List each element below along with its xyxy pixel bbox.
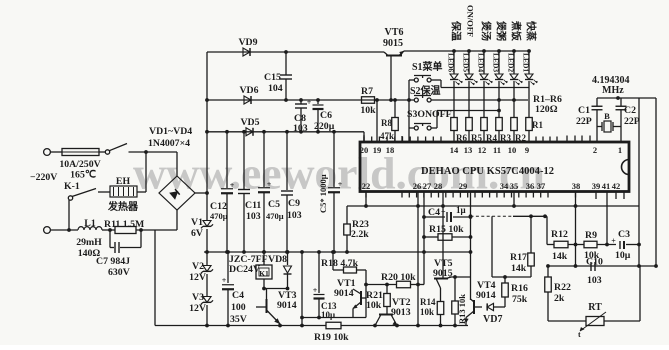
svg-text:35: 35 [510, 181, 519, 191]
svg-text:22P: 22P [576, 116, 592, 127]
svg-text:+: + [307, 98, 312, 107]
wire right edge drop [655, 98, 657, 266]
svg-text:R9: R9 [585, 230, 597, 241]
wire top row [207, 51, 384, 53]
wire pin27 bus [423, 192, 425, 285]
resistor R16 75k [504, 277, 506, 283]
svg-text:LED3: LED3 [492, 53, 501, 72]
svg-text:C1: C1 [578, 105, 590, 116]
resistor R20 10k [397, 281, 411, 288]
wire pin26 bus [417, 192, 419, 326]
svg-text:VD1~VD4: VD1~VD4 [149, 126, 192, 137]
relay contact K-1 [68, 196, 72, 200]
svg-text:9014: 9014 [476, 290, 496, 301]
svg-text:R22: R22 [554, 282, 571, 293]
switch S2 keep-warm [414, 98, 418, 102]
svg-text:12V: 12V [189, 303, 206, 314]
svg-text:LED4: LED4 [477, 53, 486, 72]
thermistor RT [586, 317, 604, 326]
svg-text:LED1: LED1 [522, 53, 531, 72]
capacitor C5* 1000u [333, 132, 335, 187]
svg-text:+: + [313, 286, 318, 295]
diode VD6 [244, 96, 251, 104]
resistor R15 10k [424, 236, 438, 238]
wire pin41 column [606, 192, 608, 245]
svg-text:10k: 10k [366, 300, 382, 311]
node rail right end [422, 250, 426, 254]
svg-text:29: 29 [459, 181, 468, 191]
pin stub extra [401, 136, 403, 142]
svg-text:27: 27 [423, 181, 432, 191]
svg-text:34: 34 [500, 181, 509, 191]
svg-text:22P: 22P [624, 116, 640, 127]
svg-text:C6: C6 [320, 110, 332, 121]
svg-text:104: 104 [268, 83, 283, 94]
svg-text:发热器: 发热器 [107, 200, 139, 213]
svg-text:R20 10k: R20 10k [381, 272, 416, 283]
svg-text:K-1: K-1 [64, 181, 80, 192]
svg-text:+: + [230, 181, 235, 190]
pin stub 39 [595, 192, 597, 199]
svg-text:6V: 6V [191, 228, 203, 239]
resistor R14 10k [437, 302, 444, 315]
wire S3 row [431, 127, 437, 129]
transistor VT6 9015 [384, 52, 388, 56]
svg-text:103: 103 [293, 123, 308, 134]
wire dashed-drop [491, 216, 493, 277]
svg-text:EH: EH [116, 176, 131, 187]
svg-text:75k: 75k [512, 294, 528, 305]
svg-text:煮饭: 煮饭 [510, 20, 523, 41]
svg-text:V2: V2 [192, 261, 204, 272]
svg-text:2.2k: 2.2k [351, 229, 369, 240]
switch S1 menu [414, 78, 418, 82]
wire [136, 229, 177, 231]
svg-text:−220V: −220V [30, 172, 57, 183]
svg-text:29mH: 29mH [76, 237, 102, 248]
wire R7 to pin19 [376, 100, 378, 142]
capacitor C13 10u [318, 252, 320, 293]
wire [102, 229, 115, 231]
capacitor C4 100/35V [227, 252, 229, 283]
svg-text:LED5: LED5 [462, 53, 471, 72]
svg-text:快蒸: 快蒸 [525, 20, 538, 41]
svg-text:14: 14 [450, 145, 459, 155]
wire pin29 bus [470, 192, 472, 300]
resistor R11 1.5M [115, 227, 136, 234]
svg-text:煲汤: 煲汤 [480, 21, 493, 41]
wire pins36-37 row [513, 215, 547, 217]
resistor R4 120 [481, 118, 488, 131]
svg-text:12V: 12V [189, 272, 206, 283]
svg-text:C15: C15 [264, 72, 281, 83]
LED5 column ONOFF [467, 49, 471, 53]
svg-text:20: 20 [360, 145, 369, 155]
capacitor C7 984J 630V [109, 230, 111, 248]
svg-text:9015: 9015 [383, 38, 403, 49]
capacitor C15 104 [285, 52, 287, 75]
zener V2 12V [203, 266, 211, 272]
transistor VT5 9015 [434, 278, 448, 280]
LED anode bus from VT6 [404, 50, 529, 52]
relay coil K1 JZC-7FF DC24V [263, 252, 265, 265]
pin stubs top unlabeled [566, 136, 568, 143]
pin stub 42 [623, 192, 625, 199]
wire to bridge top [146, 151, 177, 153]
pin stub 20 [363, 135, 365, 142]
bottom ground rail [155, 325, 326, 327]
pin stub 1 [620, 135, 622, 142]
svg-text:10μ: 10μ [321, 310, 335, 320]
resistor R5 120 [466, 118, 473, 131]
resistor R23 2.2k [346, 206, 348, 224]
resistor R21 10k [384, 294, 391, 307]
inductor L1 29mH 140ohm [78, 227, 102, 230]
svg-text:R14: R14 [420, 297, 436, 307]
svg-text:9013: 9013 [391, 307, 411, 318]
capacitor C4 1u reset [424, 216, 445, 218]
svg-text:VD7: VD7 [483, 314, 502, 325]
svg-text:103: 103 [246, 211, 261, 222]
wire VT1 emitter row [302, 317, 366, 319]
R17 14k [530, 216, 532, 253]
svg-text:470μ: 470μ [266, 211, 284, 221]
capacitor C11 103 [243, 132, 245, 189]
svg-text:35V: 35V [230, 314, 247, 325]
LED6 column &#20445;&#28201; [452, 49, 456, 53]
pin stub 42b [615, 192, 617, 199]
bottom rail right part [341, 325, 468, 327]
node [108, 228, 112, 232]
svg-text:C3: C3 [618, 229, 630, 240]
svg-text:1μ: 1μ [456, 205, 466, 215]
RT loop top [548, 265, 656, 267]
svg-text:MHz: MHz [602, 85, 624, 96]
svg-text:ON/OFF: ON/OFF [466, 5, 476, 37]
svg-text:保温: 保温 [450, 20, 463, 41]
resistor R1 120 [526, 118, 533, 131]
svg-text:100: 100 [231, 302, 246, 313]
svg-text:煲粥: 煲粥 [495, 21, 508, 41]
capacitor C5 470u [263, 132, 265, 187]
svg-text:R7: R7 [361, 86, 373, 97]
wire pin38 column [575, 192, 577, 266]
diode VD7 [474, 306, 482, 308]
svg-text:103: 103 [587, 275, 602, 286]
svg-text:28: 28 [434, 181, 443, 191]
svg-text:+: + [338, 180, 343, 189]
node [316, 130, 320, 134]
crystal bus top [597, 97, 656, 99]
diode VD8 flyback [287, 252, 289, 265]
crystal B 4.194304MHz [604, 121, 611, 132]
node [205, 98, 209, 102]
svg-text:C9: C9 [288, 198, 300, 209]
svg-text:1: 1 [618, 145, 622, 155]
resistor R8 47k [394, 100, 396, 118]
capacitor C8 103 [300, 100, 302, 104]
svg-text:R17: R17 [510, 252, 527, 263]
resistor R13 10k [452, 301, 459, 314]
svg-text:10k: 10k [420, 307, 434, 317]
wire pin22 [365, 192, 367, 206]
svg-text:103: 103 [287, 210, 302, 221]
wire ground drop x302 [301, 252, 303, 326]
svg-text:470μ: 470μ [210, 211, 228, 221]
RT loop bottom [548, 320, 586, 322]
wire row y206 left [347, 205, 443, 207]
svg-text:LED2: LED2 [507, 53, 516, 72]
pin stub 38b [575, 192, 577, 198]
svg-text:10: 10 [508, 145, 517, 155]
resistor R18 4.7k [332, 252, 334, 270]
capacitor C2 22P [620, 98, 622, 106]
svg-text:V1: V1 [191, 217, 203, 228]
svg-text:+: + [441, 208, 446, 217]
wire second row [207, 99, 395, 101]
svg-text:10k: 10k [360, 105, 376, 116]
svg-text:RT: RT [588, 302, 602, 313]
resistor R22 2k [547, 266, 549, 277]
svg-text:2: 2 [593, 145, 597, 155]
svg-text:42: 42 [612, 181, 621, 191]
svg-text:R12: R12 [551, 229, 568, 240]
transistor VT1 9014 [360, 291, 362, 305]
capacitor C12 470u [226, 132, 228, 188]
svg-text:9: 9 [525, 145, 529, 155]
svg-text:39: 39 [592, 181, 601, 191]
svg-text:9014: 9014 [277, 300, 297, 311]
svg-text:C7 984J: C7 984J [96, 256, 130, 267]
node [375, 98, 379, 102]
pin stub 22 [365, 192, 367, 198]
LED4 column &#29042;&#27748; [482, 49, 486, 53]
svg-text:26: 26 [413, 181, 422, 191]
LED2 column &#29038;&#39277; [512, 49, 516, 53]
diode VD5 [246, 128, 253, 136]
fuse FU 10A/250V [62, 149, 99, 156]
svg-text:+: + [267, 180, 272, 189]
pin comb top right [535, 137, 537, 143]
dashed link [471, 215, 514, 217]
resistor R9 10k [584, 241, 597, 248]
svg-text:165℃: 165℃ [70, 170, 96, 181]
capacitor C3 10u [619, 241, 621, 249]
svg-text:C5* 1000μ: C5* 1000μ [318, 174, 328, 213]
zener V3 12V [203, 297, 211, 303]
pin stub 2 [596, 135, 598, 142]
resistor R3 120 [496, 118, 503, 131]
svg-text:DEHAO CPU KS57C4004-12: DEHAO CPU KS57C4004-12 [421, 166, 554, 177]
wire S1 row [441, 87, 529, 89]
wire pin28 base line [442, 192, 444, 278]
svg-text:+: + [611, 237, 616, 246]
terminal AC top [44, 149, 51, 156]
node VT6 base [389, 98, 393, 102]
transistor VT3 9014 [266, 289, 268, 301]
svg-text:VD8: VD8 [268, 254, 287, 265]
svg-text:C4: C4 [428, 207, 440, 218]
svg-text:VD9: VD9 [238, 37, 257, 48]
wire R17-R16 node row [492, 276, 531, 278]
switch column wire [408, 80, 410, 142]
svg-text:S1菜单: S1菜单 [412, 60, 443, 73]
capacitor C9 103 [286, 132, 288, 190]
wire heater drop [145, 152, 147, 192]
svg-text:10A/250V: 10A/250V [59, 159, 100, 170]
svg-text:DC24V: DC24V [229, 264, 260, 275]
svg-text:120Ω: 120Ω [535, 104, 558, 115]
resistor R12 14k [547, 244, 554, 246]
svg-text:R18 4.7k: R18 4.7k [321, 258, 359, 269]
node bridge out [205, 191, 209, 195]
wire bridge output [195, 192, 207, 194]
wire ground drop left [154, 230, 156, 326]
svg-text:LED6: LED6 [447, 53, 456, 72]
node [205, 130, 209, 134]
wire R13 top [454, 277, 456, 301]
svg-text:VD6: VD6 [239, 85, 258, 96]
svg-text:19: 19 [373, 145, 382, 155]
svg-text:14k: 14k [552, 251, 568, 262]
transistor VT2 9013 [379, 314, 393, 316]
svg-text:9015: 9015 [433, 268, 453, 279]
node [278, 324, 282, 328]
resistor R7 10k [362, 97, 375, 104]
svg-text:1N4007×4: 1N4007×4 [148, 138, 190, 149]
pin comb bottom [401, 192, 403, 198]
svg-text:+: + [222, 276, 227, 285]
svg-text:R19 10k: R19 10k [314, 332, 349, 343]
wire third row [207, 131, 364, 133]
resistor R6 120 [451, 118, 458, 131]
svg-text:36: 36 [526, 181, 535, 191]
wire elbow to R12 row [546, 216, 548, 244]
wire +rail column [206, 52, 208, 221]
svg-text:C5: C5 [268, 199, 280, 210]
svg-text:R1: R1 [532, 120, 543, 130]
svg-text:C11: C11 [245, 200, 261, 211]
pin comb top left [363, 137, 365, 143]
svg-text:VT6: VT6 [385, 27, 404, 38]
zener V1 6V [203, 221, 211, 227]
node [139, 228, 143, 232]
svg-text:18: 18 [386, 145, 395, 155]
svg-text:14k: 14k [511, 263, 527, 274]
capacitor C1 22P [596, 98, 598, 106]
wire bridge bottom [176, 210, 178, 230]
node AC junction [144, 150, 148, 154]
LED3 column &#29042;&#31909; [497, 49, 501, 53]
svg-text:C4: C4 [232, 290, 244, 301]
bridge rectifier VD1-VD4 [159, 176, 195, 210]
wire [50, 151, 62, 153]
transistor VT4 9014 [473, 300, 475, 314]
svg-text:R15 10k: R15 10k [429, 224, 464, 235]
wire crystal right drop [638, 98, 640, 266]
switch S3 on/off [414, 126, 418, 130]
svg-text:10μ: 10μ [615, 250, 631, 261]
node [574, 243, 578, 247]
wire C3 right drop [637, 264, 641, 268]
svg-text:R16: R16 [511, 283, 528, 294]
thermal switch 165C [105, 150, 109, 154]
resistor R2 120 [511, 118, 518, 131]
svg-text:t: t [578, 330, 581, 339]
svg-text:K1: K1 [259, 269, 269, 278]
svg-text:12: 12 [478, 145, 487, 155]
svg-text:R11 1.5M: R11 1.5M [104, 219, 144, 230]
svg-text:S2保温: S2保温 [410, 84, 441, 97]
resistor R19 10k [326, 322, 341, 329]
svg-text:9014: 9014 [334, 288, 354, 299]
node [205, 250, 209, 254]
capacitor C6 220u [317, 100, 319, 104]
svg-text:38: 38 [572, 181, 581, 191]
svg-text:VD5: VD5 [240, 117, 259, 128]
wire S2 row [431, 99, 528, 101]
svg-text:2k: 2k [554, 293, 565, 304]
svg-text:B: B [604, 111, 610, 121]
svg-text:L1: L1 [84, 218, 96, 229]
wire [50, 229, 78, 231]
node [67, 228, 71, 232]
diode VD9 [243, 48, 250, 56]
svg-text:37: 37 [537, 181, 546, 191]
heater EH [110, 186, 137, 197]
IC U1 DEHAO CPU KS57C4004-12 [360, 142, 629, 192]
svg-text:C2: C2 [624, 105, 636, 116]
wire pins28-35 row [513, 192, 515, 206]
capacitor C10 103 [590, 262, 592, 271]
LED1 column &#24555;&#33976; [527, 49, 531, 53]
svg-text:R8: R8 [381, 118, 392, 128]
ground rail mid [204, 251, 471, 253]
svg-text:C10: C10 [586, 257, 603, 268]
svg-text:630V: 630V [108, 267, 130, 278]
terminal AC bottom [44, 227, 51, 234]
wire VT5-VT4 row [449, 276, 471, 278]
wire R18-R20 node [365, 270, 367, 318]
svg-text:11: 11 [493, 145, 501, 155]
node [205, 324, 209, 328]
svg-text:22: 22 [362, 181, 371, 191]
svg-text:41: 41 [602, 181, 611, 191]
svg-text:V3: V3 [192, 292, 204, 303]
svg-text:13: 13 [464, 145, 473, 155]
wire relay-VT3 row [264, 288, 288, 290]
